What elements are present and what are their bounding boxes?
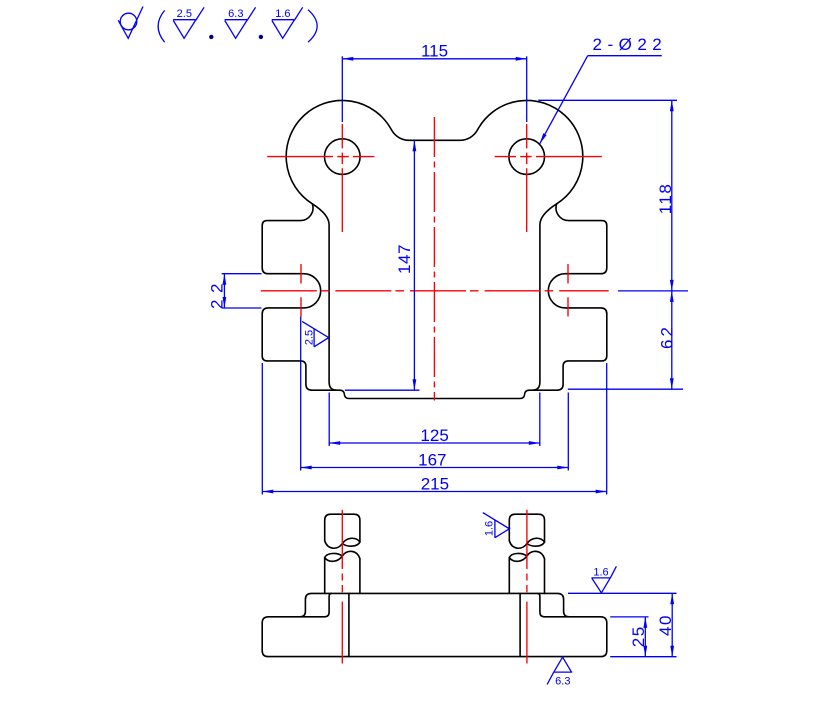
svg-text:40: 40: [656, 614, 675, 636]
roughness symbol 1.6 on top face: [592, 566, 617, 593]
left hole horizontal centerline: [267, 156, 374, 158]
dimension 115: [342, 42, 526, 122]
roughness symbol 2.5 on body edge: [302, 321, 329, 346]
svg-text:62: 62: [658, 324, 677, 349]
right hole vertical centerline: [526, 124, 528, 232]
roughness symbol 6.3: [225, 7, 256, 38]
dimension 40: [568, 593, 677, 656]
hole left: [325, 139, 361, 175]
left slot vertical centerline: [300, 264, 302, 317]
right boss upper part: [509, 514, 544, 548]
svg-text:6.3: 6.3: [555, 676, 570, 688]
left internal step edge: [301, 593, 332, 616]
body right edge (internal): [533, 204, 557, 390]
separator dot: [259, 35, 263, 39]
svg-text:147: 147: [395, 244, 414, 274]
dimension 118: [538, 100, 688, 291]
open parenthesis: [158, 10, 165, 42]
svg-text:1.6: 1.6: [275, 8, 290, 20]
roughness symbol 6.3 on bottom face: [547, 657, 572, 688]
svg-text:1.6: 1.6: [593, 566, 608, 578]
svg-text:2.5: 2.5: [177, 8, 192, 20]
left boss lower part: [325, 551, 360, 593]
svg-text:118: 118: [656, 183, 675, 215]
dimension 62: [568, 291, 683, 389]
body left edge (internal): [312, 204, 336, 390]
svg-text:2-Ø22: 2-Ø22: [593, 35, 668, 54]
svg-text:2.5: 2.5: [303, 330, 315, 345]
dimension 147: [345, 140, 420, 390]
svg-text:215: 215: [421, 474, 449, 493]
roughness symbol 1.6 on right boss: [483, 513, 510, 538]
leader 2-Ø22: [540, 35, 668, 144]
close parenthesis: [308, 10, 317, 43]
right internal vertical edge: [519, 593, 521, 656]
svg-text:115: 115: [421, 42, 448, 61]
basic surface symbol with circle: [118, 7, 143, 39]
roughness symbol 1.6: [272, 7, 303, 38]
svg-text:1.6: 1.6: [484, 521, 496, 536]
slot horizontal centerline: [261, 290, 609, 292]
dimension 22: [207, 274, 261, 309]
part vertical centerline: [433, 117, 435, 401]
left boss upper part: [325, 514, 360, 548]
dimension 25: [610, 617, 648, 657]
svg-text:6.3: 6.3: [228, 8, 243, 20]
separator dot: [209, 35, 213, 39]
svg-text:25: 25: [629, 625, 648, 647]
right boss lower part: [509, 551, 544, 593]
left boss centerline: [341, 510, 343, 664]
svg-text:125: 125: [420, 426, 448, 445]
svg-text:167: 167: [418, 451, 446, 470]
right internal step edge: [538, 593, 569, 616]
part outline (silhouette): [262, 100, 607, 398]
dimension 167: [301, 317, 569, 471]
right slot vertical centerline: [567, 264, 569, 317]
right boss centerline: [526, 510, 528, 664]
svg-text:22: 22: [207, 277, 226, 309]
right hole horizontal centerline: [495, 156, 602, 158]
left hole vertical centerline: [341, 124, 343, 232]
dimension 215: [262, 363, 606, 495]
roughness symbol 2.5: [173, 7, 204, 38]
left internal vertical edge: [348, 593, 350, 656]
hole right: [509, 139, 545, 175]
dimension 125: [329, 393, 540, 447]
base silhouette: [262, 593, 607, 656]
